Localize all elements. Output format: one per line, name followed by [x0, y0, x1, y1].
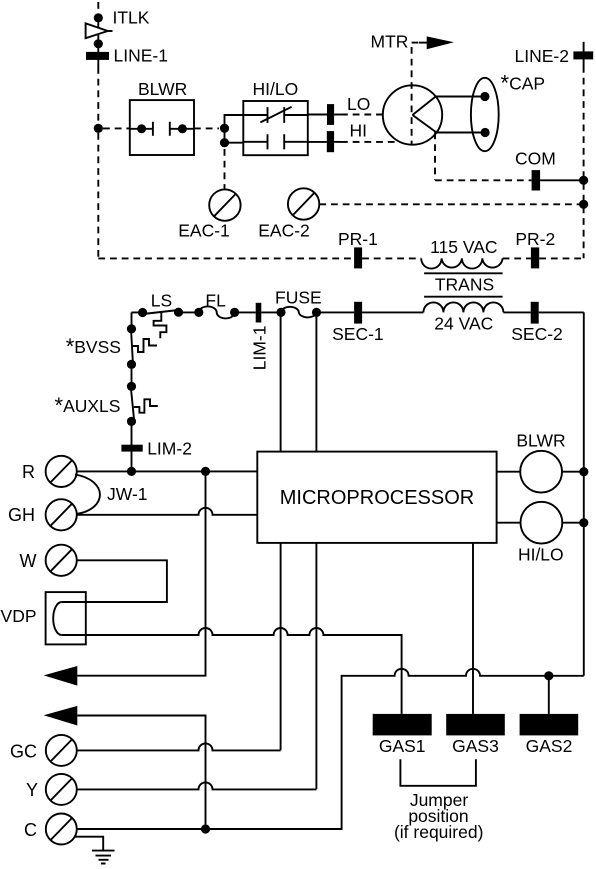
svg-text:MTR: MTR	[371, 32, 409, 52]
svg-text:Y: Y	[26, 780, 38, 800]
svg-text:GH: GH	[8, 505, 35, 525]
svg-text:EAC-1: EAC-1	[178, 221, 230, 241]
svg-text:LINE-1: LINE-1	[114, 46, 168, 66]
svg-text:TRANS: TRANS	[435, 275, 494, 295]
svg-text:24 VAC: 24 VAC	[434, 314, 493, 334]
svg-text:PR-2: PR-2	[515, 229, 555, 249]
svg-text:GAS1: GAS1	[379, 736, 426, 756]
svg-text:LS: LS	[151, 291, 172, 311]
svg-text:VDP: VDP	[1, 606, 37, 626]
svg-text:GC: GC	[10, 741, 37, 761]
svg-text:COM: COM	[515, 149, 556, 169]
svg-text:LIM-2: LIM-2	[147, 439, 192, 459]
svg-text:FUSE: FUSE	[275, 288, 322, 308]
svg-text:SEC-2: SEC-2	[511, 324, 563, 344]
svg-text:*AUXLS: *AUXLS	[55, 393, 121, 418]
svg-text:JW-1: JW-1	[107, 484, 148, 504]
svg-text:LINE-2: LINE-2	[515, 46, 569, 66]
svg-text:ITLK: ITLK	[113, 8, 150, 28]
svg-text:EAC-2: EAC-2	[258, 221, 310, 241]
svg-text:115 VAC: 115 VAC	[430, 237, 497, 257]
svg-text:MICROPROCESSOR: MICROPROCESSOR	[280, 487, 474, 509]
svg-text:LO: LO	[347, 94, 370, 114]
svg-text:HI/LO: HI/LO	[518, 545, 564, 565]
svg-text:*BVSS: *BVSS	[66, 334, 121, 359]
svg-text:HI: HI	[350, 121, 368, 141]
svg-text:BLWR: BLWR	[138, 79, 187, 99]
svg-text:*CAP: *CAP	[501, 71, 546, 96]
svg-text:R: R	[22, 462, 35, 482]
svg-text:GAS2: GAS2	[526, 736, 573, 756]
svg-text:BLWR: BLWR	[516, 431, 565, 451]
svg-text:FL: FL	[205, 291, 226, 311]
svg-text:C: C	[24, 820, 37, 840]
svg-text:LIM-1: LIM-1	[250, 326, 270, 371]
svg-text:W: W	[20, 551, 37, 571]
svg-text:HI/LO: HI/LO	[253, 79, 299, 99]
svg-text:GAS3: GAS3	[452, 736, 499, 756]
svg-text:SEC-1: SEC-1	[332, 324, 384, 344]
svg-text:PR-1: PR-1	[338, 229, 378, 249]
svg-text:(if required): (if required)	[394, 822, 483, 842]
